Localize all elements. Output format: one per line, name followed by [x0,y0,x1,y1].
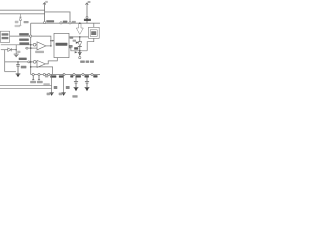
label stub2 [37,81,43,83]
ground R2 foot [61,92,65,94]
capacitor C3 right [75,76,77,82]
wire to ground [15,45,17,54]
pin circle lower input [26,47,28,49]
block oscillator box [0,31,9,42]
junction dot D1 [15,49,17,51]
node bottom pin rail [31,74,100,76]
pin circle C2 input [28,61,30,63]
wire comparator feed to control [32,36,51,46]
label emitter [74,47,78,49]
label Z1 left [15,21,19,23]
transistor output diode Q1 [79,37,81,42]
junction dot rail tap [79,22,81,24]
label stub1 [30,81,36,83]
junction dot [50,40,52,42]
op-amp comparator C1 [37,42,46,50]
junction dot C1 out [50,45,52,47]
label foot1 [47,93,50,96]
junction dot [30,66,32,68]
capacitor C4 right [86,76,88,82]
label Z1 value [24,21,29,23]
op-amp comparator C2 [37,60,45,67]
label control right stub2 [69,45,73,48]
wire feedback under-route [31,67,53,75]
label R2 [66,86,70,89]
node ground rail B [0,88,52,90]
label pin 48 [45,75,48,77]
wire VIN top rail [0,9,45,11]
wire arrow into control [51,40,53,42]
wire rail to collector drop [45,12,70,22]
label foot2 [59,93,62,96]
wire VIN lower rail [0,13,45,15]
wire box bottom L [87,38,94,51]
wire C2 output to control [45,58,57,64]
wire lower input [25,47,37,49]
label pin text dark1 [50,75,56,77]
power symbol VCC1 [43,3,46,22]
ground C3 [74,87,79,89]
pin 8 driver collector [69,22,71,24]
diode D1 [1,49,16,51]
label pin text right3 [85,75,89,77]
pin output below [79,51,81,53]
junction dot bus [30,61,32,63]
label control right stub1 [70,36,74,38]
junction dot [30,47,32,49]
label above error amp input [19,42,29,44]
wire emitter rail [69,48,87,51]
reference source symbol C2 [33,61,36,64]
label bottom corner note [72,95,77,97]
label pin row2 [19,39,29,41]
ground G2 [16,73,21,75]
wire lower stub [5,71,16,73]
junction dot bus [30,44,32,46]
arrow base mark [76,42,79,44]
node VCC internal rail [31,22,100,24]
label under C1 [35,51,44,53]
block current limit box [89,27,100,38]
label pin text right4 [93,75,97,77]
node output line [69,36,89,38]
pin stub 2 [38,76,40,80]
label below zener [15,25,21,27]
label pin row1 [19,33,29,35]
label near D1 [17,51,20,53]
node ground rail A [0,85,52,87]
capacitor CT [17,61,19,63]
junction dot [79,50,81,52]
label above C2 input wire [19,58,27,60]
pin 6 VCC [44,22,46,24]
wire divider R2 drop [63,75,65,93]
junction dot [79,36,81,38]
label part number [80,61,85,63]
wire internal bus vertical [30,23,32,74]
reference source symbol [33,43,36,46]
pin 7 Ipk [60,22,62,24]
resistor/zener Z1 below rail [19,14,22,25]
label pin text right1 [70,75,73,77]
power symbol VCC2 [85,3,88,23]
wire divider R1 drop [51,75,53,93]
ground C4 [85,87,90,89]
label Q1 [73,40,76,42]
wire reference line (upper input) [1,44,37,46]
pin Vcc input circle [86,16,88,18]
label near rails end [43,83,49,85]
label Vcc pin [84,19,91,21]
block CONTROL box U1 [54,33,69,57]
pin stub 1 [32,76,34,80]
ground G1 [14,54,19,57]
label pin text dark2 [59,75,63,77]
label pin text right2 [76,75,81,77]
pass element arrow [76,23,83,34]
wire oscillator output to pin [10,35,30,37]
ground R1 foot [49,92,53,94]
wire C1 output [46,45,51,47]
wire comparator C2 upper input [5,61,37,63]
wire left feedback vertical [4,50,6,72]
pin circles on rail [32,73,34,75]
arrow mark left [75,51,78,53]
pin 5 circle on bus [30,35,32,37]
label CT [21,66,27,69]
wire box top to rail [93,23,95,27]
label R1 [54,86,58,89]
